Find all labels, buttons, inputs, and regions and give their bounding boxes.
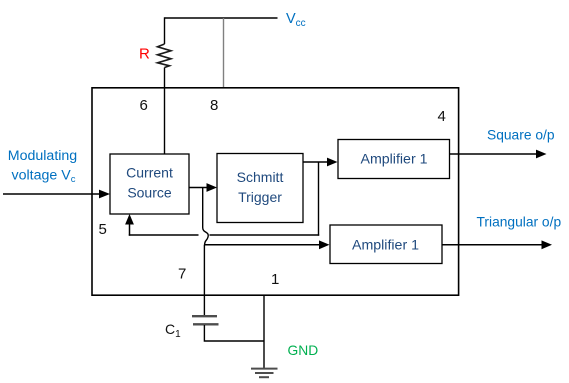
wire pin 1 to ground — [263, 295, 265, 368]
svg-text:Vcc: Vcc — [286, 11, 306, 29]
svg-text:1: 1 — [271, 271, 279, 288]
svg-text:4: 4 — [438, 108, 446, 125]
label Vcc — [286, 11, 306, 29]
svg-text:voltage Vc: voltage Vc — [12, 168, 76, 186]
svg-text:8: 8 — [210, 97, 218, 114]
wire Vcc rail to resistor top — [164, 17, 166, 44]
svg-text:Trigger: Trigger — [238, 189, 282, 205]
svg-text:6: 6 — [140, 97, 148, 114]
wire feedback up arrow into current source (pin 5) — [125, 214, 134, 236]
capacitor C1 — [192, 316, 219, 324]
wire feedback horizontal left segment — [129, 234, 199, 236]
wire capacitor tap vertical (pin 7 node) — [202, 188, 204, 228]
wire modulating voltage input arrow — [3, 190, 110, 199]
wire capacitor bottom to ground node — [204, 325, 264, 341]
IC 566 outer box — [92, 88, 459, 295]
wire feedback horizontal right segment — [210, 234, 320, 236]
label R — [139, 46, 150, 63]
pin 5 — [99, 221, 107, 238]
pin 7 — [178, 266, 186, 283]
svg-text:Schmitt: Schmitt — [237, 169, 284, 185]
resistor R — [158, 44, 172, 68]
wire pin 7 node down to capacitor — [203, 245, 205, 315]
pin 4 — [438, 108, 446, 125]
wire Vcc rail to pin 8 — [223, 18, 225, 88]
block current source — [110, 154, 189, 214]
svg-text:R: R — [139, 46, 150, 63]
svg-text:GND: GND — [288, 343, 319, 358]
label Triangular o/p — [477, 215, 562, 230]
label Square o/p — [487, 128, 555, 143]
svg-text:C1: C1 — [165, 321, 181, 340]
wire triangular output arrow — [442, 240, 552, 249]
block amplifier 1 (square output) — [338, 140, 450, 179]
svg-text:7: 7 — [178, 266, 186, 283]
label C1 — [165, 321, 181, 340]
wire hop over feedback line — [203, 228, 209, 246]
wire square output arrow — [450, 150, 547, 159]
wire resistor to current source (pin 6) — [164, 68, 166, 155]
svg-text:Triangular o/p: Triangular o/p — [477, 215, 562, 230]
svg-text:Square o/p: Square o/p — [487, 128, 555, 143]
svg-text:Source: Source — [127, 185, 172, 201]
wire schmitt output to amplifier arrow — [303, 158, 338, 167]
wire feedback vertical from schmitt output — [318, 162, 320, 236]
pin 8 — [210, 97, 218, 114]
wire triangular feed to amplifier arrow — [205, 240, 330, 249]
ground — [251, 369, 278, 378]
pin 6 — [140, 97, 148, 114]
svg-text:Modulating: Modulating — [8, 148, 77, 164]
label Modulating voltage Vc — [8, 148, 77, 185]
label GND — [288, 343, 319, 358]
svg-text:Amplifier 1: Amplifier 1 — [352, 238, 419, 254]
block schmitt trigger — [217, 154, 303, 223]
pin 1 — [271, 271, 279, 288]
svg-text:Amplifier 1: Amplifier 1 — [360, 152, 427, 168]
svg-text:5: 5 — [99, 221, 107, 238]
block amplifier 1 (triangular output) — [330, 225, 442, 264]
wire current source to schmitt trigger arrow — [189, 183, 217, 192]
wire Vcc top rail — [165, 17, 278, 19]
svg-text:Current: Current — [126, 165, 173, 181]
